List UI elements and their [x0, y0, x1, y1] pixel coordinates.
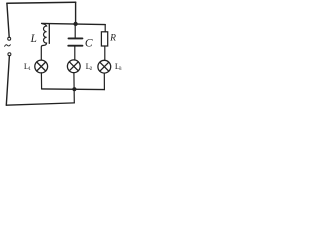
- svg-text:L: L: [30, 33, 37, 45]
- svg-text:3: 3: [119, 66, 122, 72]
- svg-text:R: R: [109, 34, 116, 44]
- svg-text:1: 1: [28, 66, 31, 72]
- svg-text:2: 2: [90, 66, 93, 72]
- svg-text:C: C: [85, 37, 93, 49]
